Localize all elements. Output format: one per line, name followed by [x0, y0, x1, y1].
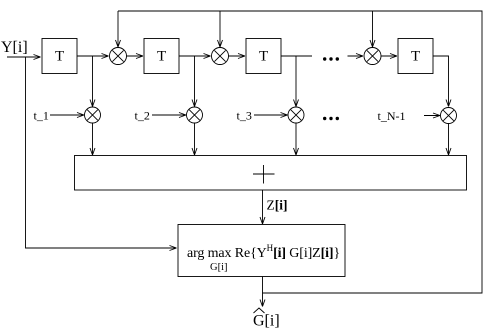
svg-text:Y[i]: Y[i]	[1, 39, 28, 56]
delay block T4	[398, 39, 433, 74]
svg-text:t_3: t_3	[237, 109, 252, 123]
delay block T2	[144, 39, 179, 74]
wire input Y[i] to T1	[7, 55, 41, 60]
multiplier M3 (top row, feedback tap)	[364, 48, 381, 65]
svg-text:T: T	[157, 49, 166, 65]
wire T3 output stub	[281, 55, 312, 57]
wire t_N-1 into M8	[424, 113, 440, 118]
delay block T1	[42, 39, 77, 74]
wire top rail drop into M2	[218, 11, 223, 47]
svg-text:T: T	[55, 49, 64, 65]
wire left feedback Y[i] down to argmax input	[26, 57, 177, 251]
wire M3 to T4	[381, 54, 397, 59]
wire branch tap1 down to multiplier M5	[90, 56, 95, 107]
multiplier M5 (bottom row, weight t_1)	[85, 107, 101, 123]
wire t_1 into M5	[50, 113, 84, 118]
wire M6 down into summer	[192, 123, 197, 155]
svg-text:t_1: t_1	[34, 109, 49, 123]
wire M2 to T3	[229, 54, 246, 59]
svg-text:T: T	[259, 49, 268, 65]
svg-text:G[i]: G[i]	[210, 262, 228, 273]
delay block T3	[246, 39, 281, 74]
wire t_2 into M6	[152, 113, 186, 118]
svg-text:t_N-1: t_N-1	[378, 109, 406, 123]
wire M1 to T2	[127, 54, 144, 59]
wire M5 down into summer	[90, 123, 95, 155]
wire branch tap2 down to multiplier M6	[192, 56, 197, 107]
summer block SUM	[75, 156, 467, 191]
svg-text:arg max Re{YH[i] G[i]Z[i]}: arg max Re{YH[i] G[i]Z[i]}	[187, 243, 340, 261]
multiplier M8 (bottom row, weight t_N-1)	[441, 108, 457, 124]
svg-text:t_2: t_2	[135, 109, 150, 123]
wire top rail drop into M3	[370, 11, 375, 47]
wire T2 output to multiplier M2	[179, 54, 211, 59]
wire M7 down into summer	[294, 123, 299, 155]
ellipsis dots bottom row	[323, 117, 339, 120]
multiplier M1 (top row, feedback tap 1)	[110, 48, 127, 65]
argmax block U1	[178, 225, 345, 277]
multiplier M2 (top row, feedback tap 2)	[212, 48, 229, 65]
wire into multiplier M3	[348, 54, 364, 59]
wire T4 output down to multiplier M8	[433, 56, 451, 107]
wire branch tap3 down to multiplier M7	[294, 56, 299, 107]
wire T1 output to multiplier M1	[77, 54, 109, 59]
node G^[i] output label hat	[254, 308, 265, 313]
wire summer output Z[i] down to argmax block	[260, 190, 265, 224]
multiplier M6 (bottom row, weight t_2)	[187, 107, 203, 123]
plus sign in summer	[253, 165, 275, 184]
svg-text:Z[i]: Z[i]	[267, 198, 288, 213]
wire top rail drop into M1	[116, 11, 121, 47]
ellipsis dots top chain	[323, 57, 339, 60]
wire t_3 into M7	[254, 113, 288, 118]
svg-text:T: T	[411, 49, 420, 65]
wire argmax output down to G^[i]	[260, 277, 265, 307]
multiplier M7 (bottom row, weight t_3)	[288, 107, 304, 123]
wire M8 down into summer	[446, 124, 451, 156]
svg-text:G[i]: G[i]	[253, 313, 280, 330]
wire feedback branch right and up to top rail	[118, 11, 482, 293]
